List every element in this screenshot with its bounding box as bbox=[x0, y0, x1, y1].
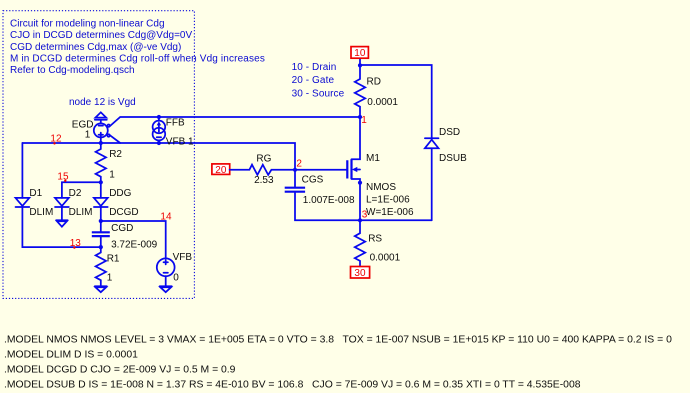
svg-text:Refer to Cdg-modeling.qsch: Refer to Cdg-modeling.qsch bbox=[10, 65, 135, 76]
svg-text:W=1E-006: W=1E-006 bbox=[366, 207, 414, 218]
svg-text:RG: RG bbox=[256, 153, 271, 164]
svg-text:M in DCGD determines Cdg roll-: M in DCGD determines Cdg roll-off when V… bbox=[10, 53, 265, 64]
svg-text:.MODEL DSUB D IS = 1E-008 N =: .MODEL DSUB D IS = 1E-008 N = 1.37 RS = … bbox=[4, 379, 581, 390]
svg-text:D1: D1 bbox=[29, 188, 42, 199]
svg-text:CGS: CGS bbox=[302, 174, 324, 185]
svg-text:.MODEL DCGD D CJO = 2E-009 VJ: .MODEL DCGD D CJO = 2E-009 VJ = 0.5 M = … bbox=[4, 365, 236, 376]
svg-text:.MODEL DLIM D IS = 0.0001: .MODEL DLIM D IS = 0.0001 bbox=[4, 350, 138, 361]
svg-text:R1: R1 bbox=[107, 253, 120, 264]
svg-text:0.0001: 0.0001 bbox=[367, 97, 398, 108]
svg-text:M1: M1 bbox=[366, 153, 380, 164]
svg-text:DLIM: DLIM bbox=[69, 207, 93, 218]
svg-text:VFB: VFB bbox=[173, 252, 193, 263]
svg-text:node 12 is Vgd: node 12 is Vgd bbox=[69, 97, 136, 108]
svg-text:CGD determines Cdg,max (@-ve V: CGD determines Cdg,max (@-ve Vdg) bbox=[10, 42, 181, 53]
svg-text:1: 1 bbox=[85, 130, 91, 141]
svg-text:1: 1 bbox=[107, 272, 113, 283]
svg-text:0: 0 bbox=[173, 272, 179, 283]
svg-text:CJO in DCGD determines Cdg@Vdg: CJO in DCGD determines Cdg@Vdg=0V bbox=[10, 30, 192, 41]
svg-text:CGD: CGD bbox=[111, 223, 133, 234]
svg-text:30 - Source: 30 - Source bbox=[292, 89, 345, 100]
svg-text:0.0001: 0.0001 bbox=[370, 252, 401, 263]
svg-text:20: 20 bbox=[215, 165, 227, 176]
svg-text:1: 1 bbox=[361, 115, 367, 126]
svg-text:15: 15 bbox=[57, 172, 69, 183]
svg-text:1: 1 bbox=[109, 169, 115, 180]
svg-text:Circuit for modeling non-linea: Circuit for modeling non-linear Cdg bbox=[10, 19, 165, 30]
svg-text:DSUB: DSUB bbox=[439, 153, 467, 164]
svg-text:RD: RD bbox=[367, 76, 381, 87]
svg-text:1.007E-008: 1.007E-008 bbox=[303, 195, 355, 206]
svg-text:R2: R2 bbox=[109, 149, 122, 160]
svg-text:D2: D2 bbox=[69, 188, 82, 199]
svg-text:14: 14 bbox=[160, 212, 172, 223]
svg-text:2: 2 bbox=[296, 159, 302, 170]
svg-text:RS: RS bbox=[368, 233, 382, 244]
svg-text:NMOS: NMOS bbox=[366, 182, 396, 193]
svg-text:.MODEL NMOS NMOS LEVEL = 3 VMA: .MODEL NMOS NMOS LEVEL = 3 VMAX = 1E+005… bbox=[4, 335, 672, 346]
svg-text:FFB: FFB bbox=[166, 118, 185, 129]
svg-text:DCGD: DCGD bbox=[109, 207, 138, 218]
svg-text:L=1E-006: L=1E-006 bbox=[366, 194, 410, 205]
svg-text:10 - Drain: 10 - Drain bbox=[292, 62, 337, 73]
svg-text:2.53: 2.53 bbox=[254, 175, 274, 186]
svg-text:VFB 1: VFB 1 bbox=[166, 136, 194, 147]
svg-text:30: 30 bbox=[354, 268, 366, 279]
svg-text:3.72E-009: 3.72E-009 bbox=[111, 240, 158, 251]
svg-text:12: 12 bbox=[50, 133, 62, 144]
svg-text:10: 10 bbox=[354, 48, 366, 59]
svg-text:DDG: DDG bbox=[109, 188, 131, 199]
svg-text:DSD: DSD bbox=[439, 127, 460, 138]
svg-text:20 - Gate: 20 - Gate bbox=[292, 75, 335, 86]
svg-text:DLIM: DLIM bbox=[29, 207, 53, 218]
